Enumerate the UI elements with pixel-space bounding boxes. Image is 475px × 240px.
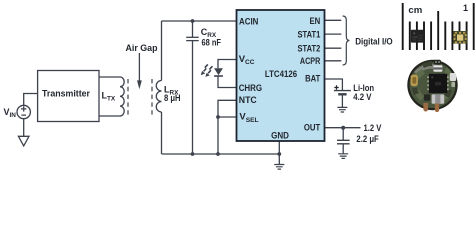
wire LED cathode to CHRG [218,76,237,88]
svg-text:cm: cm [408,5,422,16]
svg-text:68 nF: 68 nF [202,38,222,48]
wire STAT2 stub [325,47,342,49]
node dot GND rail [277,152,281,156]
svg-text:OUT: OUT [304,123,321,134]
svg-text:8 μH: 8 μH [164,93,181,103]
battery BT1 Li-Ion [334,91,351,108]
svg-text:Digital I/O: Digital I/O [355,37,393,48]
wire top rail to ACIN [162,20,237,22]
svg-text:1.2 V: 1.2 V [364,123,383,133]
component on PCB: rim part top dark [434,60,441,65]
wire bottom rail [162,153,280,155]
component on PCB: IC center [429,74,447,93]
node dot OUT cap [341,126,345,130]
svg-text:GND: GND [271,130,289,141]
wire LRX vertical top [161,21,163,81]
wire OUT to capacitor [342,128,344,141]
svg-text:Air Gap: Air Gap [126,43,158,53]
component on PCB: silver part bottom [432,94,445,103]
wire EN stub [325,19,342,21]
component on PCB: dark part bottom left [424,94,430,100]
air gap dashed line left [127,79,129,117]
svg-text:1: 1 [463,3,468,13]
PCB pins bottom copper [423,103,428,111]
svg-text:Transmitter: Transmitter [42,89,90,99]
svg-text:2.2 μF: 2.2 μF [356,134,379,144]
svg-text:NTC: NTC [239,95,257,106]
transmitter box [38,71,99,122]
LED light arrows [204,64,213,73]
inductor LTX [120,77,124,116]
svg-text:ACIN: ACIN [239,17,259,28]
wire VCC to LED anode [218,60,237,69]
wire VIN top to transmitter [24,94,38,106]
wire LTX bottom stub [99,115,120,117]
photo ruler ticks [403,3,474,50]
wire ACPR stub [325,60,342,62]
capacitor COUT 2.2uF [337,140,350,153]
node dot CRX bottom [191,152,195,156]
component on PCB: white part right rim [450,73,456,81]
svg-text:LTC4126: LTC4126 [265,69,297,80]
wire BAT to battery [325,79,343,90]
label battery plus [334,85,338,89]
svg-text:EN: EN [310,16,321,27]
ground (VIN source, open triangle) [18,136,29,146]
LED D1 [214,68,223,76]
node dot NTC-VSEL [216,115,220,119]
ground (output capacitor) [338,154,348,159]
node dot CRX top [191,19,195,23]
wire NTC [218,100,237,154]
op-chip U1 LTC4126 body [237,10,325,141]
wire OUT [325,127,361,129]
inductor LRX [156,81,161,113]
air gap arrowhead [137,80,142,89]
wire STAT1 stub [325,33,342,35]
svg-text:4.2 V: 4.2 V [353,92,372,102]
component on PCB: white part top [433,65,442,72]
svg-text:STAT2: STAT2 [298,43,321,54]
IC package sample 2 (QFN gold) [453,31,467,44]
svg-text:CHRG: CHRG [239,83,262,94]
node dot NTC ground [216,152,220,156]
IC package sample 1 (black SOT) [411,30,424,43]
wire VIN bottom to ground [23,119,25,137]
wire LRX vertical bottom [161,112,163,154]
svg-text:BAT: BAT [305,74,320,85]
air gap dashed line right [151,79,153,117]
wire VSEL [218,116,237,118]
capacitor CRX [186,21,199,154]
PCB module photo (round) [407,60,457,112]
component on PCB: gold pad left rim [411,75,418,87]
wire LTX top stub [99,76,120,78]
svg-text:STAT1: STAT1 [298,29,321,40]
ground (battery) [337,107,347,112]
svg-text:ACPR: ACPR [300,56,321,67]
ground (chip GND) [274,165,284,170]
voltage source VIN [17,105,30,118]
air gap arrow [138,53,140,81]
brace digital IO [343,16,350,65]
wire GND to ground [278,141,280,164]
